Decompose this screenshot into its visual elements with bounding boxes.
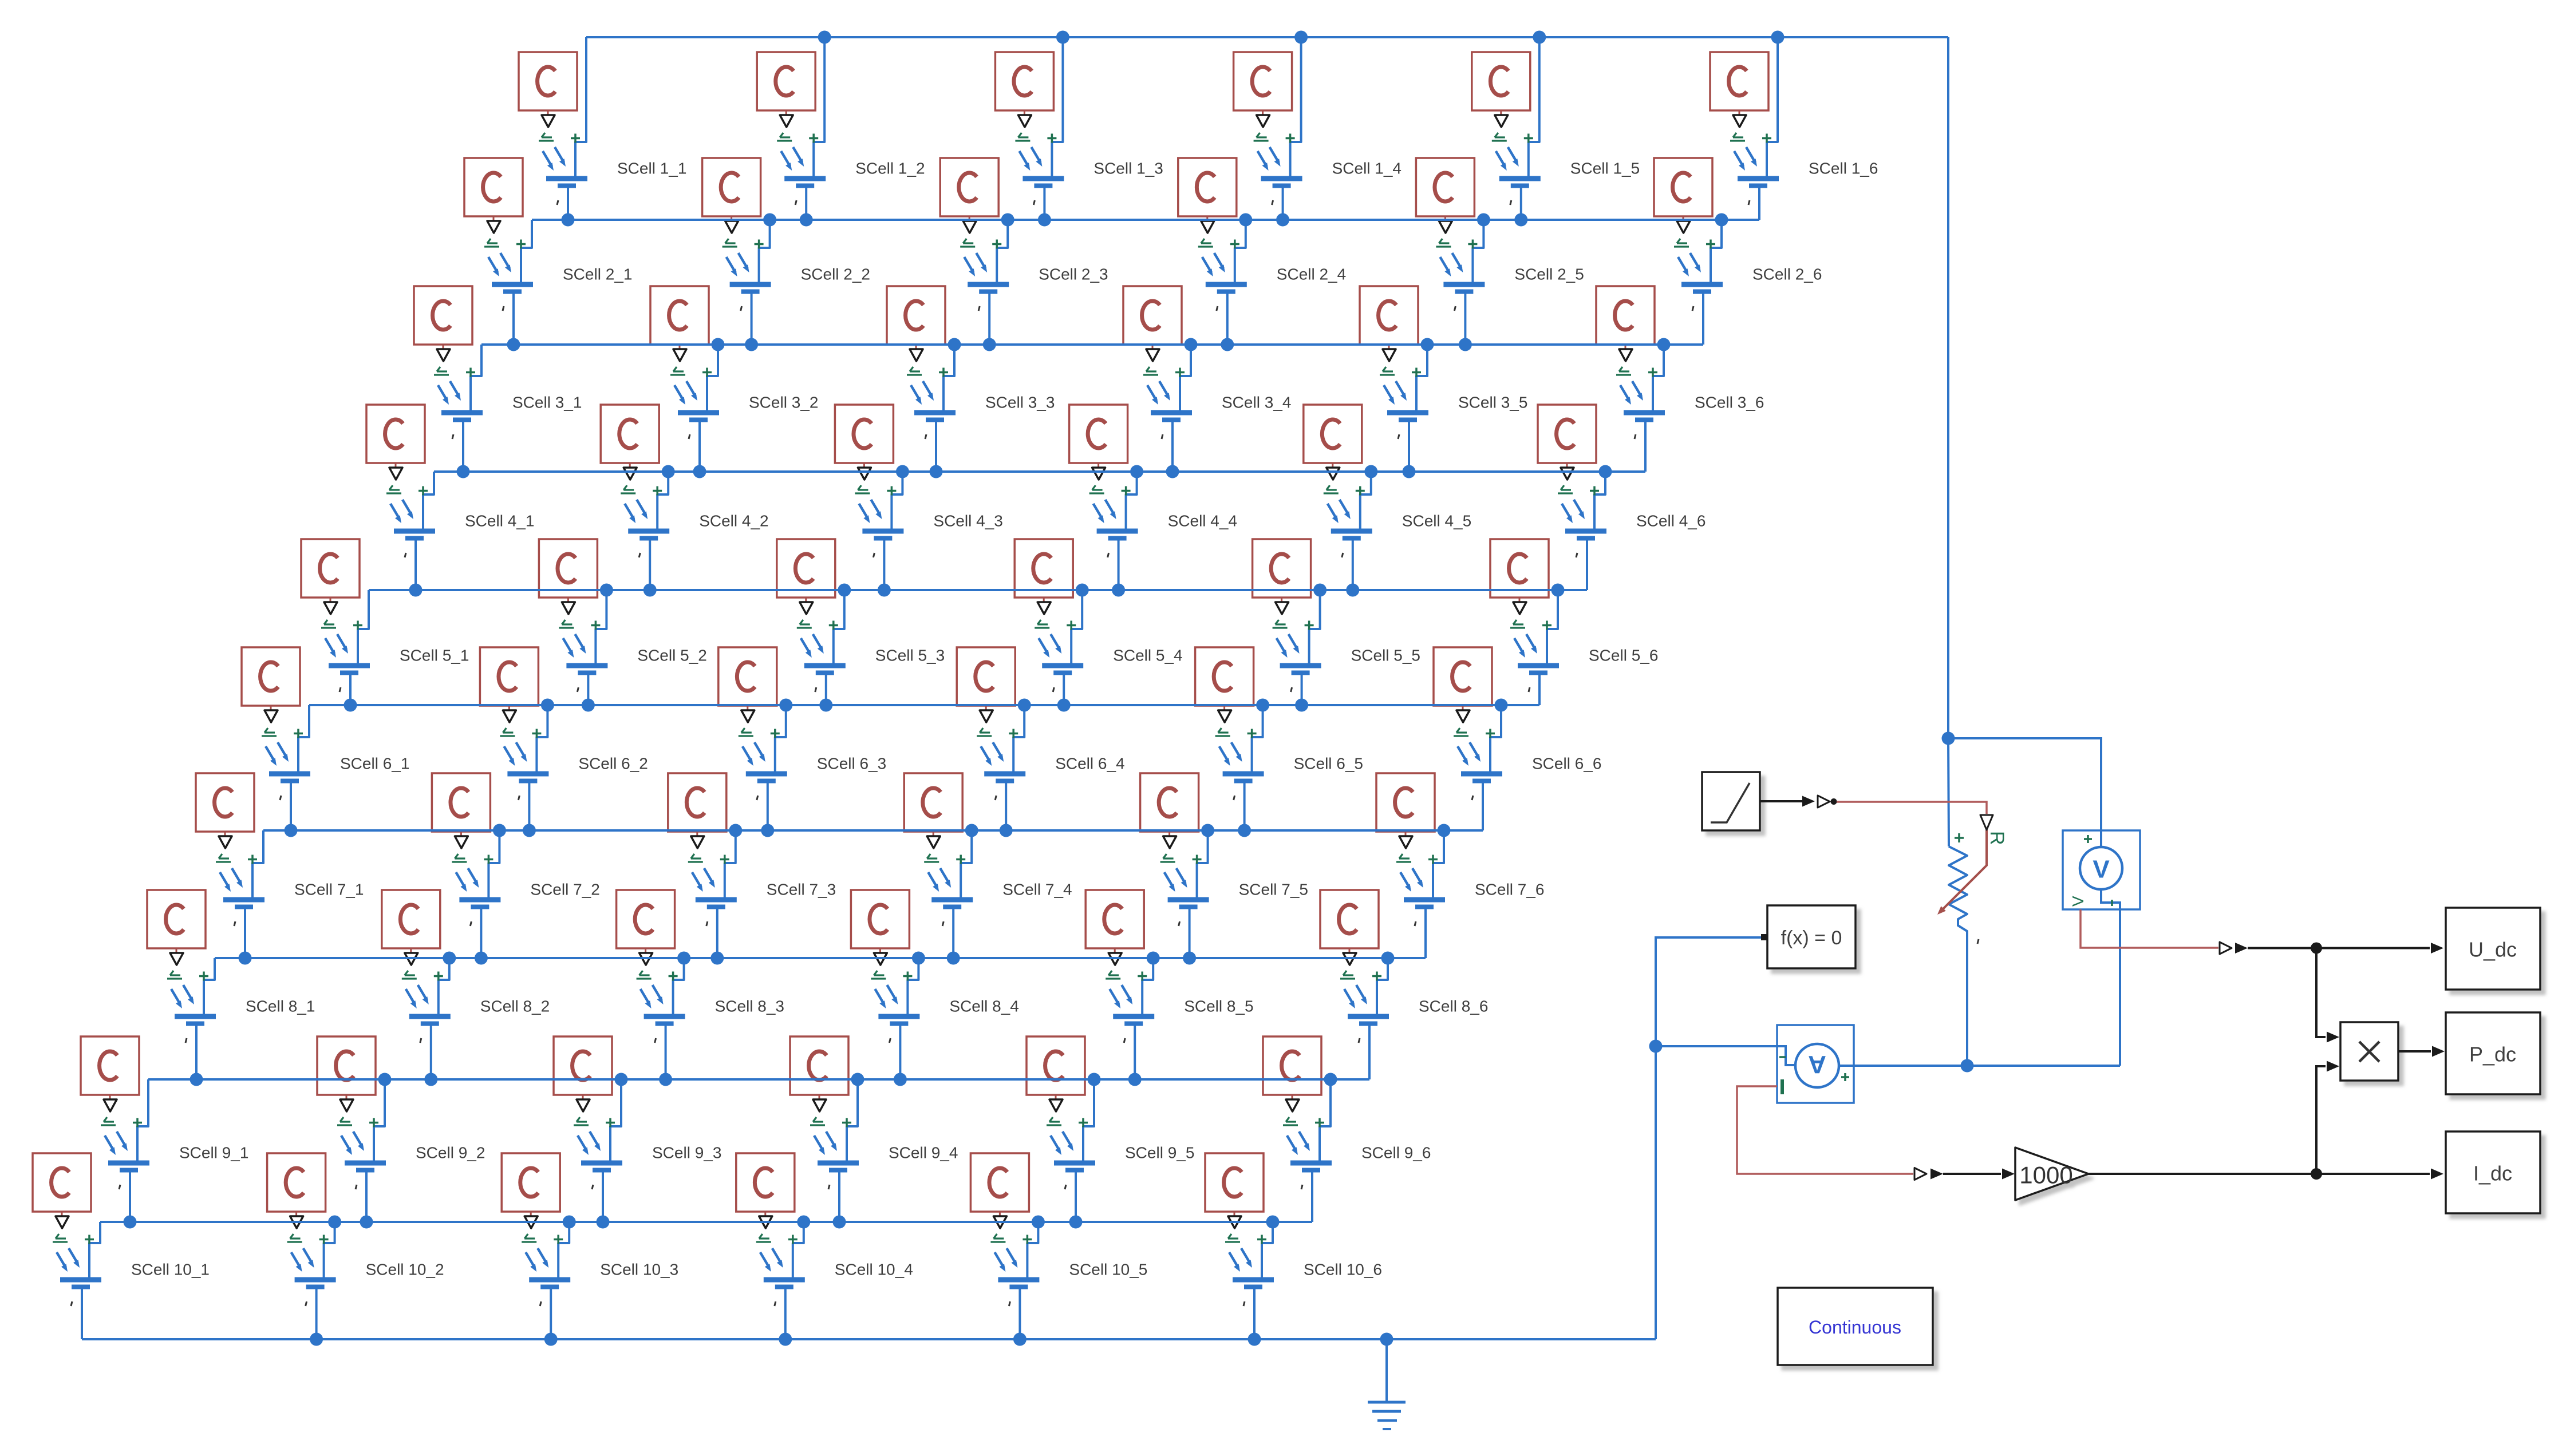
- PS input port triangle: [1456, 710, 1470, 722]
- junction bus 3 / SCell 3_4 -: [1166, 465, 1179, 478]
- cell plates: [1206, 282, 1247, 287]
- - port label: [1272, 200, 1273, 205]
- wire: SCell 9_5 + terminal to upper bus: [1083, 1079, 1094, 1161]
- wire: SCell 6_3 + terminal to upper bus: [775, 705, 786, 771]
- wire: C output stem: [1349, 948, 1351, 952]
- constant block C (SCell 7_5 irradiance source): [1140, 773, 1199, 832]
- junction bus 2 / SCell 3_4 +: [1185, 338, 1198, 351]
- light ray arrows: [266, 742, 287, 762]
- - port label: [1217, 306, 1218, 311]
- wire: SCell 4_3 + terminal to upper bus: [891, 472, 902, 529]
- svg-text:SCell 2_1: SCell 2_1: [563, 266, 632, 283]
- junction bus 1 / SCell 2_6 +: [1715, 213, 1728, 227]
- light ray arrows: [1440, 253, 1461, 272]
- junction top bus / SCell 1_4 +: [1294, 31, 1308, 44]
- wire: SCell 9_6 - terminal to lower bus: [1311, 1172, 1313, 1222]
- junction bus 8 / SCell 8_2 -: [424, 1073, 437, 1086]
- light ray arrows: [727, 253, 748, 272]
- cell plates: [984, 771, 1025, 777]
- solar cell SCell 7_3: [668, 773, 836, 958]
- PS input port triangle: [741, 710, 755, 722]
- - port label: [1454, 306, 1455, 311]
- svg-text:SCell 9_3: SCell 9_3: [652, 1144, 721, 1162]
- wire: SCell 5_4 - terminal to lower bus: [1063, 675, 1065, 705]
- cell plates: [818, 1161, 859, 1166]
- - port label: [828, 1185, 830, 1189]
- Ir port label: [1225, 1234, 1240, 1242]
- - port label: [339, 687, 341, 692]
- svg-text:Continuous: Continuous: [1809, 1317, 1901, 1338]
- light ray arrows: [875, 985, 896, 1004]
- Ir port label: [688, 854, 703, 862]
- wire: ground riser to f(x)=0 and A-: [1656, 937, 1761, 1339]
- solar cell SCell 10_6: [1205, 1153, 1382, 1339]
- light ray arrows: [1384, 381, 1405, 401]
- constant block C (SCell 2_4 irradiance source): [1178, 158, 1237, 216]
- PS input port triangle: [1092, 468, 1106, 480]
- solar cell SCell 6_4: [957, 647, 1124, 830]
- junction bus 3 / SCell 4_4 +: [1130, 465, 1143, 478]
- junction bus 3 / SCell 4_3 +: [896, 465, 909, 478]
- constant block C (SCell 1_4 irradiance source): [1234, 52, 1292, 110]
- junction bus 6 / SCell 6_5 -: [1238, 824, 1251, 837]
- junction bus 9 / SCell 10_4 +: [797, 1216, 810, 1229]
- constant block C (SCell 10_5 irradiance source): [970, 1153, 1029, 1212]
- Ir port label: [522, 1234, 536, 1242]
- junction bus 7 / SCell 8_3 +: [677, 952, 690, 965]
- light ray arrows: [814, 1131, 835, 1151]
- wire: SCell 2_6 - terminal to lower bus: [1702, 294, 1704, 345]
- bus wire between rows 3 and 4: [434, 470, 1645, 473]
- + port label: [1648, 368, 1657, 377]
- wire: SCell 10_2 + terminal to upper bus: [324, 1222, 335, 1277]
- wire: SCell 6_2 - terminal to lower bus: [528, 783, 530, 830]
- cell plates: [1461, 771, 1502, 777]
- - port label: [1291, 687, 1292, 692]
- cell plates: [581, 1161, 622, 1166]
- wire: SCell 5_1 + terminal to upper bus: [358, 590, 369, 663]
- cell plates: [507, 771, 548, 777]
- solar cell SCell 6_3: [718, 647, 886, 830]
- light ray arrows: [390, 500, 412, 519]
- junction top bus / SCell 1_2 +: [818, 31, 831, 44]
- wire: SCell 9_5 - terminal to lower bus: [1075, 1172, 1077, 1222]
- wire: SCell 2_1 + terminal to upper bus: [521, 220, 532, 282]
- cell plates: [1233, 1277, 1274, 1283]
- cell plates: [804, 663, 846, 668]
- junction bus 3 / SCell 4_2 +: [662, 465, 675, 478]
- wire: SCell 7_4 - terminal to lower bus: [952, 909, 954, 958]
- cell plates: [441, 410, 483, 416]
- cell plates: [345, 1161, 386, 1166]
- cell plates: [1151, 410, 1192, 416]
- - port label: [503, 306, 504, 311]
- solar cell SCell 10_1: [33, 1153, 210, 1339]
- Ir port label: [1198, 239, 1213, 247]
- light ray arrows: [563, 634, 584, 654]
- cell plates: [492, 282, 533, 287]
- wire: C output stem: [915, 345, 917, 349]
- wire: SCell 7_6 - terminal to lower bus: [1424, 909, 1427, 958]
- wire: to U_dc: [2248, 947, 2430, 949]
- - port label: [1009, 1301, 1010, 1306]
- light ray arrows: [1678, 253, 1699, 272]
- + port label: [591, 621, 600, 630]
- wire: SCell 4_6 - terminal to lower bus: [1586, 540, 1588, 590]
- junction bus 1 / SCell 2_5 +: [1477, 213, 1490, 227]
- wire: SCell 1_2 - terminal to lower bus: [805, 188, 807, 220]
- Ir port label: [670, 367, 685, 375]
- svg-text:SCell 7_5: SCell 7_5: [1239, 881, 1308, 899]
- - port label: [71, 1301, 72, 1306]
- svg-text:SCell 6_3: SCell 6_3: [817, 755, 886, 773]
- cell plates: [1499, 176, 1541, 181]
- junction bus 1 / SCell 1_3 -: [1038, 213, 1051, 227]
- svg-text:SCell 10_3: SCell 10_3: [600, 1261, 678, 1279]
- cell plates: [1518, 663, 1559, 668]
- + port label: [939, 368, 948, 377]
- wire: C output stem: [1097, 463, 1099, 467]
- PS input port triangle: [1561, 468, 1574, 480]
- bus wire between rows 1 and 2: [532, 219, 1759, 221]
- Ir port label: [386, 485, 401, 493]
- light ray arrows: [488, 253, 510, 272]
- cell plates: [546, 176, 587, 181]
- PS input port triangle: [487, 221, 500, 233]
- Ir port label: [287, 1234, 302, 1242]
- cell plates: [394, 529, 435, 534]
- cell plates: [914, 410, 956, 416]
- constant block C (SCell 6_2 irradiance source): [480, 647, 538, 706]
- + port label: [516, 240, 526, 249]
- wire: C output stem: [1292, 1095, 1293, 1099]
- solar cell SCell 7_4: [904, 773, 1072, 958]
- svg-text:SCell 10_1: SCell 10_1: [131, 1261, 210, 1279]
- - port label: [1162, 434, 1163, 439]
- junction bus 9 / SCell 9_3 -: [597, 1216, 610, 1229]
- Ir port label: [990, 1234, 1005, 1242]
- Ir port label: [777, 133, 792, 141]
- solar cell SCell 2_4: [1178, 158, 1346, 345]
- wire: A sensor to node: [1854, 1065, 2120, 1067]
- - port label: [1342, 553, 1343, 557]
- - port label: [470, 921, 471, 926]
- svg-text:SCell 2_2: SCell 2_2: [801, 266, 870, 283]
- light ray arrows: [1514, 634, 1535, 654]
- - port label: [795, 200, 796, 205]
- + port label: [1468, 240, 1477, 249]
- - port label: [655, 1038, 656, 1043]
- wire: SCell 7_2 + terminal to upper bus: [488, 830, 499, 897]
- light ray arrows: [1562, 500, 1583, 519]
- R input port triangle: [1980, 815, 1993, 830]
- light ray arrows: [57, 1248, 78, 1268]
- + port label: [319, 1235, 329, 1244]
- wire: V- to lower node: [2119, 909, 2121, 1066]
- variable resistor arrow: [1941, 830, 1987, 911]
- junction bus 6 / SCell 7_5 +: [1201, 824, 1214, 837]
- solar cell SCell 4_5: [1304, 405, 1471, 590]
- constant block C (SCell 1_2 irradiance source): [757, 52, 815, 110]
- PS input port triangle: [780, 115, 793, 127]
- wire: C output stem: [1114, 948, 1116, 952]
- wire: SCell 2_3 + terminal to upper bus: [997, 220, 1008, 282]
- cell plates: [1261, 176, 1302, 181]
- constant block C (SCell 4_2 irradiance source): [601, 405, 659, 463]
- - port label: [1779, 1056, 1786, 1058]
- wire: SCell 2_2 + terminal to upper bus: [759, 220, 770, 282]
- wire: SCell 2_4 - terminal to lower bus: [1226, 294, 1229, 345]
- + port label: [419, 486, 428, 496]
- constant block C (SCell 4_1 irradiance source): [366, 405, 425, 463]
- cell plates: [628, 529, 669, 534]
- svg-text:SCell 8_3: SCell 8_3: [715, 998, 784, 1015]
- S-PS converter: [1818, 796, 1830, 808]
- PS input port triangle: [290, 1216, 303, 1228]
- - port label: [185, 1038, 187, 1043]
- solar cell SCell 10_4: [736, 1153, 913, 1339]
- wire: C output stem: [224, 832, 226, 836]
- light ray arrows: [964, 253, 985, 272]
- junction bus 9 / SCell 9_4 -: [833, 1216, 846, 1229]
- light ray arrows: [1164, 868, 1186, 888]
- solar cell SCell 7_5: [1140, 773, 1308, 958]
- Ir port label: [452, 854, 467, 862]
- + port label: [353, 621, 362, 630]
- wire: SCell 1_1 + terminal to upper bus: [575, 37, 586, 176]
- Ir port label: [977, 728, 992, 736]
- PS input port triangle: [1383, 349, 1396, 361]
- junction bus 1 / SCell 2_2 +: [763, 213, 776, 227]
- light ray arrows: [981, 742, 1002, 762]
- I output port label: [1781, 1079, 1784, 1094]
- constant block C (SCell 8_3 irradiance source): [617, 890, 675, 948]
- resistor zigzag: [1949, 846, 1967, 1066]
- wire: C output stem: [395, 463, 397, 467]
- cell plates: [862, 529, 903, 534]
- Ir port label: [1454, 728, 1468, 736]
- junction bus 5 / SCell 5_4 -: [1057, 699, 1071, 712]
- svg-text:A: A: [1808, 1051, 1826, 1079]
- wire: C output stem: [1332, 463, 1333, 467]
- + port label: [1079, 1118, 1088, 1127]
- cell plates: [1054, 1161, 1095, 1166]
- Ir port label: [1730, 133, 1745, 141]
- junction bus 5 / SCell 6_2 +: [541, 699, 554, 712]
- wire: SCell 8_2 - terminal to lower bus: [430, 1026, 432, 1079]
- junction bus 2 / SCell 2_2 -: [745, 338, 758, 351]
- wire: C output stem: [1405, 832, 1407, 836]
- + port label: [956, 855, 965, 864]
- bus wire between rows 6 and 7: [263, 829, 1483, 832]
- cell plates: [1565, 529, 1606, 534]
- + port label: [702, 368, 712, 377]
- Ir port label: [855, 485, 870, 493]
- solar cell SCell 8_3: [617, 890, 784, 1079]
- wire: SCell 9_3 - terminal to lower bus: [602, 1172, 604, 1222]
- cell plates: [1097, 529, 1138, 534]
- PS input port triangle: [264, 710, 278, 722]
- Ir port label: [1160, 854, 1175, 862]
- svg-text:U_dc: U_dc: [2469, 938, 2517, 962]
- Ir port label: [500, 728, 515, 736]
- Ir port label: [1089, 485, 1104, 493]
- constant block C (SCell 7_2 irradiance source): [432, 773, 490, 832]
- svg-text:SCell 5_5: SCell 5_5: [1351, 647, 1420, 664]
- constant block C (SCell 5_5 irradiance source): [1253, 539, 1311, 598]
- wire: C output stem: [1262, 110, 1264, 114]
- junction bus 4 / SCell 5_4 +: [1076, 584, 1089, 597]
- PS input port triangle: [170, 953, 183, 965]
- bus wire between rows 2 and 3: [481, 343, 1703, 346]
- PS-S converter (U_dc): [2220, 942, 2232, 954]
- cell plates: [764, 1277, 805, 1283]
- wire: SCell 5_6 + terminal to upper bus: [1547, 590, 1558, 663]
- constant block C (SCell 6_4 irradiance source): [957, 647, 1015, 706]
- PS input port triangle: [1218, 710, 1231, 722]
- wire: C output stem: [819, 1095, 820, 1099]
- wire: C output stem: [1281, 598, 1282, 602]
- junction bus 2 / SCell 3_5 +: [1421, 338, 1434, 351]
- junction bus 9 / SCell 10_2 +: [328, 1216, 341, 1229]
- solar cell SCell 6_6: [1434, 647, 1601, 830]
- Ir port label: [262, 728, 277, 736]
- light ray arrows: [406, 985, 427, 1004]
- + port label: [1356, 486, 1365, 496]
- PS input port triangle: [324, 602, 337, 614]
- light ray arrows: [859, 500, 880, 519]
- solar cell SCell 7_2: [432, 773, 599, 958]
- cell plates: [1443, 282, 1485, 287]
- sensor circle: [2100, 830, 2102, 848]
- solar cell SCell 1_6: [1710, 37, 1878, 220]
- junction bus 9 / SCell 10_6 +: [1266, 1216, 1280, 1229]
- wire: SCell 7_1 + terminal to upper bus: [252, 830, 263, 897]
- svg-text:SCell 7_6: SCell 7_6: [1475, 881, 1544, 899]
- + port label: [1009, 729, 1018, 738]
- wire: SCell 7_3 - terminal to lower bus: [716, 909, 718, 958]
- junction bus 3 / SCell 3_3 -: [930, 465, 943, 478]
- PS input port triangle: [542, 115, 555, 127]
- solar cell SCell 8_5: [1085, 890, 1253, 1079]
- Ir port label: [1143, 367, 1158, 375]
- light ray arrows: [994, 1248, 1016, 1268]
- junction bus 5 / SCell 5_2 -: [582, 699, 595, 712]
- junction bus 8 / SCell 9_6 +: [1324, 1073, 1337, 1086]
- + port label: [1590, 486, 1599, 496]
- Ir port label: [739, 728, 753, 736]
- + port label: [606, 1118, 615, 1127]
- wire: C output stem: [508, 706, 510, 710]
- constant block C (SCell 5_1 irradiance source): [301, 539, 360, 598]
- wire: SCell 1_3 - terminal to lower bus: [1043, 188, 1045, 220]
- junction bottom bus / SCell 10_5 -: [1013, 1333, 1027, 1346]
- + port label: [669, 972, 678, 981]
- - port label: [1301, 1185, 1302, 1189]
- junction top bus / SCell 1_6 +: [1771, 31, 1785, 44]
- wire: C output stem: [1444, 216, 1446, 220]
- junction bus 9 / SCell 9_5 -: [1069, 1216, 1083, 1229]
- wire: SCell 8_1 - terminal to lower bus: [195, 1026, 198, 1079]
- wire: SCell 4_1 - terminal to lower bus: [414, 540, 417, 590]
- svg-text:SCell 9_4: SCell 9_4: [889, 1144, 958, 1162]
- svg-text:SCell 10_5: SCell 10_5: [1069, 1261, 1147, 1279]
- cell plates: [1280, 663, 1321, 668]
- Ir port label: [1558, 485, 1573, 493]
- PS input port triangle: [1343, 953, 1356, 965]
- solar cell SCell 1_5: [1472, 37, 1640, 220]
- wire: SCell 1_4 - terminal to lower bus: [1282, 188, 1284, 220]
- light ray arrows: [1219, 742, 1241, 762]
- svg-text:SCell 5_2: SCell 5_2: [637, 647, 706, 664]
- + port label: [2084, 835, 2092, 843]
- wire: C output stem: [645, 948, 646, 952]
- solar cell SCell 5_3: [777, 539, 945, 705]
- Ir port label: [1340, 971, 1355, 979]
- svg-text:SCell 9_2: SCell 9_2: [416, 1144, 485, 1162]
- junction bus 8 / SCell 9_5 +: [1088, 1073, 1101, 1086]
- light ray arrows: [692, 868, 713, 888]
- wire: C output stem: [764, 1212, 766, 1216]
- wire: C output stem: [696, 832, 698, 836]
- junction bus 6 / SCell 7_3 +: [729, 824, 742, 837]
- PS input port triangle: [1228, 1216, 1241, 1228]
- + port label: [554, 1235, 563, 1244]
- bus wire between rows 4 and 5: [369, 589, 1587, 591]
- wire: SCell 7_5 + terminal to upper bus: [1197, 830, 1208, 897]
- Ir port label: [871, 971, 886, 979]
- wire: C output stem: [410, 948, 412, 952]
- junction bus 8 / SCell 8_4 -: [894, 1073, 907, 1086]
- solar cell SCell 4_1: [366, 405, 534, 590]
- wire: SCell 6_4 - terminal to lower bus: [1005, 783, 1007, 830]
- Ir port label: [1510, 620, 1525, 628]
- svg-text:SCell 7_4: SCell 7_4: [1002, 881, 1072, 899]
- solar cell SCell 9_6: [1263, 1036, 1431, 1222]
- wire: C output stem: [999, 1212, 1001, 1216]
- junction bus 7 / SCell 8_2 +: [443, 952, 456, 965]
- junction bus 5 / SCell 5_3 -: [819, 699, 832, 712]
- solar cell SCell 9_5: [1027, 1036, 1194, 1222]
- light ray arrows: [526, 1248, 547, 1268]
- PS input port triangle: [524, 1216, 538, 1228]
- junction bus 5 / SCell 6_6 +: [1495, 699, 1508, 712]
- solar cell SCell 4_2: [601, 405, 768, 590]
- junction bus 8 / SCell 9_4 +: [851, 1073, 864, 1086]
- svg-text:SCell 10_6: SCell 10_6: [1304, 1261, 1382, 1279]
- - port label: [1234, 796, 1235, 800]
- powergui block Continuous: [1778, 1288, 1933, 1365]
- junction bus 1 / SCell 1_2 -: [800, 213, 813, 227]
- voltage sensor V: [2063, 830, 2140, 909]
- - port label: [234, 921, 235, 926]
- wire: SCell 6_2 + terminal to upper bus: [536, 705, 547, 771]
- PS wire: I measurement output: [1737, 1086, 1913, 1174]
- junction bus 7 / SCell 7_2 -: [475, 952, 488, 965]
- - port label: [1635, 434, 1636, 439]
- wire: SCell 5_3 - terminal to lower bus: [825, 675, 827, 705]
- Ir port label: [1106, 971, 1120, 979]
- + port label: [771, 729, 780, 738]
- + port label: [1122, 486, 1131, 496]
- + port label: [1257, 1235, 1266, 1244]
- wire: C output stem: [330, 598, 331, 602]
- - port label: [420, 1038, 421, 1043]
- cell plates: [1404, 897, 1445, 903]
- wire: SCell 2_3 - terminal to lower bus: [988, 294, 990, 345]
- PS-S converter (I_dc): [1914, 1168, 1926, 1180]
- svg-text:SCell 5_6: SCell 5_6: [1589, 647, 1658, 664]
